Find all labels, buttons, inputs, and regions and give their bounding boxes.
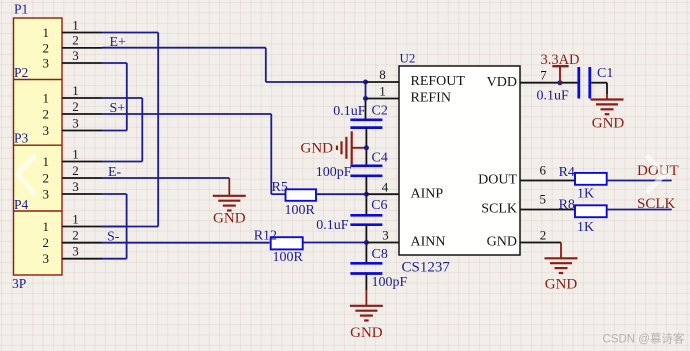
svg-text:3: 3 (72, 115, 79, 130)
svg-text:1: 1 (72, 146, 79, 161)
svg-text:8: 8 (379, 67, 386, 82)
svg-text:0.1uF: 0.1uF (316, 218, 349, 233)
svg-text:1: 1 (43, 219, 50, 234)
svg-text:1K: 1K (577, 186, 594, 201)
svg-text:P2: P2 (14, 65, 28, 80)
svg-text:AINN: AINN (411, 235, 446, 250)
svg-text:R12: R12 (254, 228, 277, 243)
svg-text:REFIN: REFIN (411, 91, 451, 106)
svg-text:2: 2 (43, 106, 50, 121)
svg-text:CSDN @慕诗客: CSDN @慕诗客 (603, 332, 685, 346)
svg-text:GND: GND (545, 277, 578, 293)
svg-text:1: 1 (43, 154, 50, 169)
svg-text:100R: 100R (285, 203, 316, 218)
svg-text:3: 3 (43, 123, 50, 138)
svg-text:SCLK: SCLK (637, 196, 676, 212)
svg-text:3: 3 (43, 251, 50, 266)
svg-text:3: 3 (43, 186, 50, 201)
svg-text:100pF: 100pF (372, 275, 408, 290)
svg-text:7: 7 (540, 68, 547, 83)
svg-text:C8: C8 (372, 247, 388, 262)
svg-text:1: 1 (43, 25, 50, 40)
svg-text:SCLK: SCLK (481, 202, 517, 217)
svg-text:C6: C6 (371, 198, 387, 213)
svg-text:1: 1 (379, 84, 386, 99)
svg-text:GND: GND (592, 115, 625, 131)
svg-text:CS1237: CS1237 (402, 260, 451, 276)
svg-text:2: 2 (72, 163, 79, 178)
svg-text:GND: GND (213, 211, 246, 227)
svg-text:100R: 100R (273, 250, 304, 265)
svg-text:2: 2 (540, 228, 547, 243)
svg-text:1: 1 (72, 83, 79, 98)
svg-text:2: 2 (72, 33, 79, 48)
svg-text:0.1uF: 0.1uF (537, 88, 570, 103)
svg-text:U2: U2 (400, 51, 416, 66)
svg-text:GND: GND (350, 325, 383, 341)
svg-text:3P: 3P (12, 276, 26, 291)
svg-text:6: 6 (539, 163, 546, 178)
svg-text:5: 5 (539, 192, 546, 207)
svg-text:2: 2 (43, 170, 50, 185)
svg-text:0.1uF: 0.1uF (333, 104, 366, 119)
svg-text:1: 1 (72, 17, 79, 32)
svg-text:3: 3 (382, 228, 389, 243)
svg-text:DOUT: DOUT (478, 173, 517, 188)
svg-text:P3: P3 (14, 131, 29, 146)
svg-text:100pF: 100pF (316, 165, 352, 180)
svg-text:REFOUT: REFOUT (411, 74, 466, 89)
svg-text:1: 1 (72, 211, 79, 226)
svg-text:P4: P4 (14, 197, 29, 212)
svg-text:C4: C4 (372, 151, 388, 166)
svg-text:1K: 1K (577, 220, 594, 235)
svg-text:AINP: AINP (411, 186, 444, 201)
svg-text:GND: GND (487, 235, 517, 250)
svg-text:3: 3 (72, 244, 79, 259)
svg-text:2: 2 (72, 99, 79, 114)
svg-text:R8: R8 (559, 197, 575, 212)
svg-text:2: 2 (72, 228, 79, 243)
svg-text:P1: P1 (14, 2, 28, 17)
svg-text:VDD: VDD (487, 75, 517, 90)
svg-text:R5: R5 (272, 180, 288, 195)
svg-text:GND: GND (301, 140, 334, 156)
svg-text:3: 3 (72, 179, 79, 194)
svg-text:4: 4 (382, 179, 389, 194)
svg-text:3: 3 (72, 48, 79, 63)
svg-text:C2: C2 (372, 103, 388, 118)
svg-text:2: 2 (43, 235, 50, 250)
svg-text:R4: R4 (559, 165, 575, 180)
svg-text:3.3AD: 3.3AD (540, 52, 579, 68)
svg-text:3: 3 (43, 55, 50, 70)
svg-text:2: 2 (43, 40, 50, 55)
svg-text:1: 1 (43, 90, 50, 105)
svg-text:C1: C1 (597, 66, 613, 81)
